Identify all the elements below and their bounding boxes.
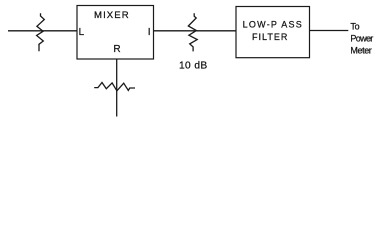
- svg-text:To: To: [350, 22, 359, 32]
- svg-text:I: I: [148, 27, 151, 38]
- low-pass filter box: [236, 7, 310, 58]
- svg-text:L: L: [79, 27, 85, 38]
- svg-text:Power: Power: [350, 33, 373, 43]
- wire: mixer I output to low-pass filter: [154, 30, 237, 32]
- svg-text:R: R: [113, 44, 120, 55]
- flexible-line squiggle on LO wire: [94, 83, 135, 91]
- mixer pin R: [113, 44, 120, 55]
- label Power: [350, 33, 373, 43]
- label MIXER: [94, 10, 129, 21]
- svg-text:LOW-P ASS: LOW-P ASS: [243, 19, 302, 29]
- label FILTER: [252, 32, 288, 42]
- label To: [350, 22, 359, 32]
- attenuator squiggle (10 dB pad) on IF line: [188, 13, 197, 51]
- mixer pin I: [148, 27, 151, 38]
- label LOW-P ASS: [243, 19, 302, 29]
- label Meter: [350, 45, 371, 55]
- flexible-line squiggle on input wire: [37, 13, 45, 51]
- wire: input line to mixer L port: [8, 30, 77, 32]
- wire: mixer R port down to LO: [116, 59, 118, 117]
- mixer box: [77, 6, 154, 60]
- svg-text:MIXER: MIXER: [94, 10, 129, 21]
- label 10 dB: [179, 60, 207, 71]
- mixer pin L: [79, 27, 85, 38]
- wire: low-pass filter output: [310, 30, 349, 32]
- svg-text:Meter: Meter: [350, 45, 371, 55]
- svg-text:FILTER: FILTER: [252, 32, 288, 42]
- svg-text:10 dB: 10 dB: [179, 60, 207, 71]
